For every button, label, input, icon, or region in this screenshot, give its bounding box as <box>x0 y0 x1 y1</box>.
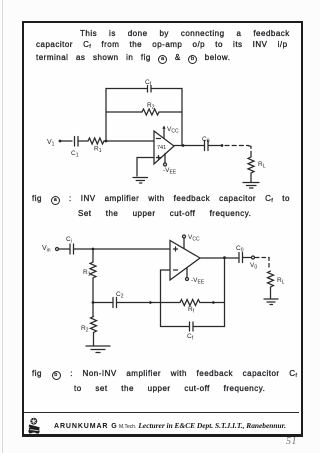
svg-text:R2: R2 <box>81 325 89 334</box>
page number 51 <box>286 436 297 447</box>
wire R2 to ground <box>93 333 95 346</box>
node: output junction dot <box>182 144 185 147</box>
wire C1 to R1 <box>78 140 88 142</box>
handwritten paragraph line 2 <box>36 41 288 51</box>
capacitor Ci <box>66 236 74 254</box>
svg-text:R1: R1 <box>94 146 102 155</box>
fig (a) caption line 2 <box>78 210 251 218</box>
wire: feedback right rail <box>224 258 226 327</box>
svg-text:C0: C0 <box>236 245 244 254</box>
svg-text:C0: C0 <box>202 136 210 145</box>
wire RL to ground <box>250 173 252 182</box>
svg-text:RL: RL <box>258 161 266 170</box>
svg-text:C2: C2 <box>116 291 124 300</box>
wire C2 to feedback rail with arrow <box>117 301 161 304</box>
resistor RL load (circuit 2) <box>268 271 285 287</box>
svg-text:R1: R1 <box>83 269 91 278</box>
wire: feedback left rail <box>105 89 107 142</box>
wire: down to R2 <box>92 303 94 317</box>
wire: Cf top branch left <box>106 88 147 90</box>
wire Co to terminal <box>208 145 221 147</box>
node Vo output terminal <box>250 256 257 271</box>
fig (b) caption line 1 <box>32 370 297 380</box>
handwritten paragraph line 3 <box>36 54 230 64</box>
wire: feedback right rail <box>181 89 183 146</box>
footer separator line <box>24 412 299 413</box>
svg-text:-VEE: -VEE <box>191 277 205 286</box>
wire: + input to ground <box>137 158 154 177</box>
resistor R1 (divider top) <box>83 262 96 278</box>
-Vee supply pin (op-amp 2) <box>186 268 205 286</box>
scan artifact: thin vertical line at far left <box>2 0 3 453</box>
wire: dashed to load <box>225 145 248 147</box>
resistor R1 <box>88 138 104 154</box>
college logo <box>27 417 41 434</box>
fig (b) caption line 2 <box>74 385 265 393</box>
wire: dashed to RL (circuit 2) <box>256 258 270 271</box>
capacitor Cf feedback <box>145 79 152 92</box>
resistor R2 <box>142 102 159 115</box>
wire: R2 branch left <box>106 111 142 113</box>
resistor Rf feedback <box>161 300 225 315</box>
op-amp U1 741 <box>154 131 174 164</box>
svg-text:RL: RL <box>277 277 285 286</box>
node: output terminal dot <box>221 144 224 147</box>
svg-text:Cf: Cf <box>187 333 194 342</box>
svg-text:V1: V1 <box>47 139 55 148</box>
wire Co to Vo terminal <box>243 257 252 259</box>
wire R1 to inverting input with junction <box>104 140 154 142</box>
wire: down to RL <box>248 146 251 158</box>
svg-text:Vin: Vin <box>42 245 51 254</box>
svg-text:-VEE: -VEE <box>163 167 177 176</box>
wire: - input to feedback rail <box>161 270 171 303</box>
capacitor Cf feedback (circuit 2) <box>161 322 225 342</box>
wire: output <box>174 145 204 147</box>
node: output junction dot <box>223 256 226 259</box>
svg-text:C1: C1 <box>71 150 79 159</box>
wire: down to R1 <box>92 249 94 262</box>
capacitor Co (circuit 2 output) <box>236 245 244 263</box>
wire: feedback left rail lower <box>160 303 162 327</box>
node: divider junction dot <box>92 248 95 251</box>
svg-text:V0: V0 <box>250 262 257 271</box>
svg-text:Rf: Rf <box>188 306 195 315</box>
fig (a) caption line 1 <box>32 195 290 205</box>
wire node to C2 <box>93 302 112 304</box>
ground (RL circuit 2) <box>264 299 278 305</box>
svg-text:VCC: VCC <box>188 234 200 243</box>
Vcc supply pin (op-amp 2) <box>183 234 200 249</box>
node Vin input terminal <box>42 245 59 254</box>
wire Vin to Ci <box>59 248 70 250</box>
svg-text:Ci: Ci <box>66 236 72 245</box>
wire Ci to + input <box>74 248 171 250</box>
node: feedback junction dot <box>105 140 108 143</box>
wire: Cf top branch right <box>151 88 182 90</box>
ground (divider circuit 2) <box>86 346 110 353</box>
-Vee supply pin <box>163 154 177 176</box>
capacitor C2 <box>113 291 124 308</box>
ground (RL circuit 1) <box>243 183 259 189</box>
svg-text:VCC: VCC <box>167 126 179 135</box>
capacitor C1 <box>71 137 79 159</box>
wire: R2 branch right <box>159 111 182 113</box>
svg-text:741: 741 <box>157 145 166 151</box>
svg-text:R2: R2 <box>147 102 155 111</box>
node: divider mid junction dot <box>92 301 95 304</box>
wire V1 to C1 <box>60 140 72 142</box>
footer text <box>54 421 286 430</box>
op-amp U2 <box>170 241 200 281</box>
resistor RL load <box>248 157 266 173</box>
wire RL to ground (circuit 2) <box>270 287 272 298</box>
node V1 input terminal <box>47 139 61 148</box>
ground (op-amp 1 non-inverting input) <box>133 178 148 184</box>
svg-text:Cf: Cf <box>145 79 152 88</box>
handwritten paragraph line 1 <box>80 30 290 38</box>
wire: output <box>200 257 238 259</box>
capacitor Co <box>202 136 210 151</box>
Vcc supply pin <box>162 126 179 139</box>
wire R1 to node <box>92 278 94 303</box>
resistor R2 (divider bottom) <box>81 317 97 334</box>
